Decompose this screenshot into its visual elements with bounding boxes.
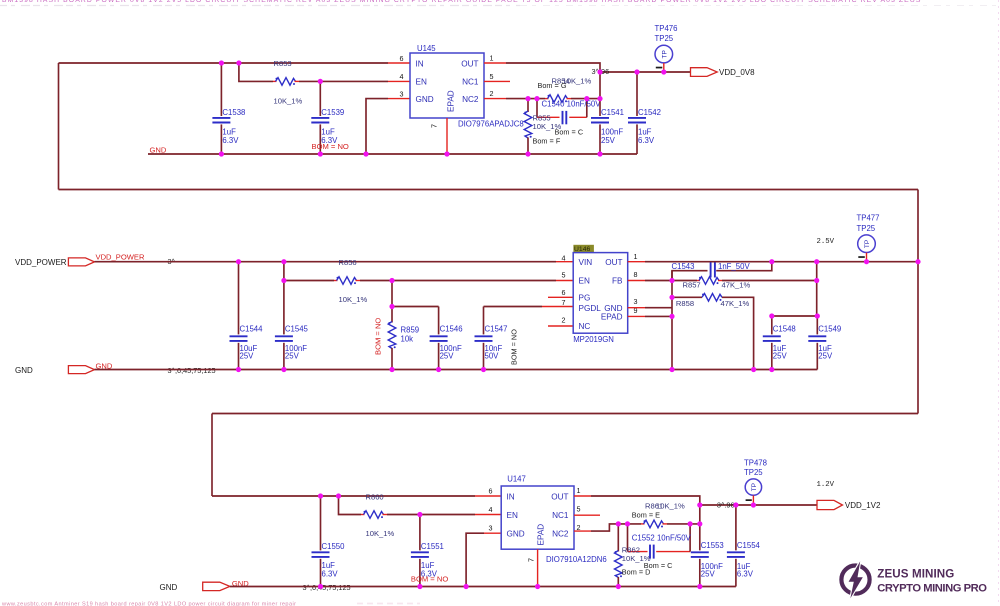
wire OUT pin1 <box>484 63 600 72</box>
svg-text:IN: IN <box>507 492 515 501</box>
svg-text:GND: GND <box>150 145 167 154</box>
svg-text:C1546: C1546 <box>440 325 463 334</box>
wire OUT pin1 row <box>574 496 700 505</box>
capacitor C1554 <box>727 505 761 587</box>
decorative bottom text row <box>1 601 420 606</box>
wire right loop vertical <box>917 190 919 414</box>
svg-text:5: 5 <box>577 505 581 514</box>
svg-text:3^,6,45,75,125: 3^,6,45,75,125 <box>168 366 216 375</box>
svg-text:6: 6 <box>400 54 404 63</box>
svg-text:25V: 25V <box>440 352 455 361</box>
resistor R858 <box>672 294 754 370</box>
svg-text:TP: TP <box>864 240 871 248</box>
svg-text:TP25: TP25 <box>744 468 763 477</box>
capacitor C1546 <box>430 307 463 370</box>
wire NC stub pin2 <box>548 325 573 327</box>
svg-text:5: 5 <box>562 271 566 280</box>
svg-text:3: 3 <box>489 524 493 533</box>
op-amp U147 regulator box <box>489 475 607 564</box>
svg-text:NC1: NC1 <box>462 78 479 87</box>
connector VDD_POWER <box>15 253 176 267</box>
svg-text:EPAD: EPAD <box>601 313 623 322</box>
svg-text:1.2V: 1.2V <box>817 481 835 489</box>
svg-text:BOM = NO: BOM = NO <box>510 329 519 365</box>
logo ZEUS MINING <box>841 561 987 598</box>
svg-text:OUT: OUT <box>461 59 478 68</box>
svg-text:3: 3 <box>400 89 404 98</box>
svg-text:VDD_POWER: VDD_POWER <box>15 258 67 267</box>
svg-text:GND: GND <box>416 95 434 104</box>
svg-text:TP478: TP478 <box>744 459 767 468</box>
svg-text:8: 8 <box>634 270 638 279</box>
svg-text:10k: 10k <box>401 334 414 343</box>
svg-text:TP476: TP476 <box>655 24 678 33</box>
test point TP477 <box>857 214 880 262</box>
svg-text:NC1: NC1 <box>552 511 569 520</box>
wire top feed y=63 <box>59 62 389 64</box>
connector VDD_0V8 <box>691 68 756 77</box>
node junctions bottom block <box>318 493 756 589</box>
wire EN drop <box>339 496 362 515</box>
wire GND pin3 <box>466 533 501 586</box>
svg-text:C1551: C1551 <box>421 542 444 551</box>
svg-text:Bom = F: Bom = F <box>533 137 561 146</box>
capacitor C1547 <box>475 307 574 370</box>
wire IN feed y=496 <box>212 495 475 497</box>
wire EPAD stub <box>446 118 448 154</box>
svg-text:7: 7 <box>562 298 566 307</box>
wire PG stub pin6 <box>548 296 573 298</box>
svg-text:C1547: C1547 <box>485 325 508 334</box>
svg-text:Bom = G: Bom = G <box>538 81 567 90</box>
ground rail bottom block <box>230 586 736 588</box>
svg-text:VDD_1V2: VDD_1V2 <box>845 501 881 510</box>
capacitor C1541 <box>591 72 624 154</box>
connector GND bottom <box>160 579 351 592</box>
capacitor C1551 <box>411 515 448 587</box>
svg-text:C1541: C1541 <box>601 108 624 117</box>
test point TP478 <box>744 459 767 506</box>
svg-text:10K_1%: 10K_1% <box>622 554 651 563</box>
svg-text:R860: R860 <box>366 493 384 502</box>
wire VIN stub <box>556 261 573 263</box>
svg-text:EPAD: EPAD <box>447 90 456 112</box>
capacitor C1544 <box>230 262 264 370</box>
svg-text:BOM = NO: BOM = NO <box>312 142 349 151</box>
svg-text:47K_1%: 47K_1% <box>722 280 751 289</box>
svg-text:1: 1 <box>577 486 581 495</box>
svg-text:6: 6 <box>562 288 566 297</box>
wire EN drop <box>239 63 273 81</box>
svg-text:R853: R853 <box>274 59 292 68</box>
svg-text:R857: R857 <box>683 280 701 289</box>
svg-text:2: 2 <box>562 316 566 325</box>
svg-text:50V: 50V <box>485 352 500 361</box>
svg-text:6.3V: 6.3V <box>737 569 754 578</box>
svg-text:1: 1 <box>634 252 638 261</box>
svg-text:ZEUS MINING: ZEUS MINING <box>877 568 954 581</box>
op-amp U145 regulator box <box>400 44 524 128</box>
wire EN to chip <box>387 514 475 516</box>
resistor R859 <box>374 307 420 370</box>
svg-text:EPAD: EPAD <box>537 524 546 546</box>
svg-text:1: 1 <box>490 53 494 62</box>
svg-text:10K_1%: 10K_1% <box>533 122 562 131</box>
svg-text:25V: 25V <box>601 136 616 145</box>
svg-text:VIN: VIN <box>579 258 593 267</box>
svg-text:C1539: C1539 <box>321 108 344 117</box>
svg-text:TP25: TP25 <box>857 224 876 233</box>
svg-text:OUT: OUT <box>605 258 622 267</box>
svg-text:R856: R856 <box>339 258 357 267</box>
svg-text:3^.96: 3^.96 <box>717 500 735 509</box>
svg-text:5: 5 <box>490 72 494 81</box>
wire IN pin stub <box>388 62 410 64</box>
svg-text:C1538: C1538 <box>222 108 245 117</box>
svg-text:4: 4 <box>400 72 404 81</box>
svg-text:C1543: C1543 <box>672 262 695 271</box>
svg-text:NC: NC <box>579 322 591 331</box>
svg-text:BM1398 HASH BOARD POWER 0V8 1V: BM1398 HASH BOARD POWER 0V8 1V2 2V5 LDO … <box>2 0 921 4</box>
svg-text:TP: TP <box>751 483 758 491</box>
node junctions top block <box>219 60 667 156</box>
svg-text:C1553: C1553 <box>701 541 724 550</box>
wire GND pin3 row <box>628 307 672 309</box>
wire bottom loop horizontal <box>59 189 919 191</box>
svg-text:U147: U147 <box>507 475 526 484</box>
svg-text:Bom = D: Bom = D <box>622 568 651 577</box>
wire NC1 stub pin5 <box>574 514 600 516</box>
capacitor C1542 <box>628 72 661 154</box>
svg-text:1nF_50V: 1nF_50V <box>718 262 750 271</box>
svg-text:10K_1%: 10K_1% <box>274 96 303 105</box>
svg-text:C1545: C1545 <box>285 325 309 334</box>
wire EN to C1539 and chip <box>299 80 388 82</box>
svg-text:C1549: C1549 <box>818 325 841 334</box>
svg-text:C1554: C1554 <box>737 541 761 550</box>
wire EN stub <box>556 280 573 282</box>
svg-text:2: 2 <box>490 89 494 98</box>
wire vertical x=672 <box>671 271 673 370</box>
svg-text:TP: TP <box>662 50 669 58</box>
resistor R862 <box>615 524 651 587</box>
resistor R860 <box>361 511 394 539</box>
svg-text:GND: GND <box>507 529 525 538</box>
svg-text:C1544: C1544 <box>240 325 264 334</box>
wire FB vertical x=816.7 <box>816 262 818 316</box>
svg-text:FB: FB <box>612 277 623 286</box>
node junctions middle block <box>236 259 921 372</box>
svg-text:10K_1%: 10K_1% <box>563 77 592 86</box>
svg-text:GND: GND <box>15 366 33 375</box>
resistor R857 <box>683 277 817 290</box>
ground rail middle block <box>95 369 818 371</box>
wire output 1V2 line <box>700 504 817 506</box>
svg-text:C1552 10nF/50V: C1552 10nF/50V <box>632 534 692 543</box>
wire output 0V8 line <box>600 71 691 73</box>
capacitor C1540 <box>537 99 601 137</box>
svg-text:47K_1%: 47K_1% <box>721 299 750 308</box>
svg-text:PGDL: PGDL <box>579 304 602 313</box>
svg-text:DIO7910A12DN6: DIO7910A12DN6 <box>546 555 607 564</box>
capacitor C1538 <box>212 63 245 154</box>
svg-text:EN: EN <box>507 511 518 520</box>
wire EPAD stub <box>537 549 539 586</box>
svg-text:6.3V: 6.3V <box>222 136 239 145</box>
wire EN to chip <box>360 280 556 282</box>
wire EN stub <box>475 514 501 516</box>
svg-text:MP2019GN: MP2019GN <box>573 335 614 344</box>
svg-text:DIO7976APADJC8: DIO7976APADJC8 <box>458 119 524 128</box>
svg-text:IN: IN <box>416 59 424 68</box>
resistor R854 <box>538 77 601 103</box>
resistor R853 <box>273 78 299 86</box>
svg-text:PG: PG <box>579 294 591 303</box>
ground rail top block <box>148 153 637 155</box>
svg-text:10K_1%: 10K_1% <box>656 501 685 510</box>
svg-text:7: 7 <box>527 558 536 562</box>
connector VDD_1V2 <box>817 500 881 510</box>
svg-text:R858: R858 <box>676 299 694 308</box>
test point TP476 <box>655 24 678 72</box>
wire NC1 stub pin5 <box>484 80 510 82</box>
svg-text:EN: EN <box>416 78 427 87</box>
svg-text:EN: EN <box>579 277 590 286</box>
capacitor C1539 <box>311 81 349 154</box>
svg-text:www.zeusbtc.com Antminer S19 h: www.zeusbtc.com Antminer S19 hash board … <box>1 601 296 606</box>
svg-text:C1548: C1548 <box>773 325 796 334</box>
capacitor C1549 <box>808 316 841 370</box>
resistor R856 <box>334 258 367 304</box>
wire VDD_POWER feed <box>95 261 557 263</box>
svg-text:25V: 25V <box>240 352 255 361</box>
wire NC2 pin2 row <box>574 524 641 531</box>
resistor R855 <box>524 99 561 154</box>
svg-text:4: 4 <box>489 505 493 514</box>
svg-text:C1550: C1550 <box>322 542 346 551</box>
wire left loop vertical <box>58 63 60 190</box>
svg-text:TP477: TP477 <box>857 214 880 223</box>
svg-text:4: 4 <box>562 254 566 263</box>
svg-text:7: 7 <box>430 124 439 128</box>
svg-text:GND: GND <box>160 583 178 592</box>
capacitor C1545 <box>275 281 309 370</box>
wire EN pin stub <box>388 80 410 82</box>
wire OUT pin1 row <box>628 261 918 263</box>
capacitor C1552 <box>628 524 692 570</box>
svg-text:25V: 25V <box>285 352 300 361</box>
svg-text:6.3V: 6.3V <box>322 569 339 578</box>
svg-text:U145: U145 <box>417 44 436 53</box>
wire 2.5V feed to bottom block <box>212 413 918 415</box>
svg-text:25V: 25V <box>773 352 788 361</box>
decorative top text row <box>0 0 1000 6</box>
svg-text:2.5V: 2.5V <box>817 238 835 246</box>
wire NC2 pin2 row <box>484 98 545 100</box>
svg-text:BOM = NO: BOM = NO <box>411 574 448 583</box>
decorative right border <box>998 0 1000 606</box>
svg-text:VDD_0V8: VDD_0V8 <box>719 68 755 77</box>
wire FB pin8 row <box>628 280 697 282</box>
svg-text:25V: 25V <box>818 352 833 361</box>
svg-text:10K_1%: 10K_1% <box>339 295 368 304</box>
wire EPAD pin9 row <box>628 315 672 317</box>
svg-text:3: 3 <box>634 297 638 306</box>
resistor R861 <box>632 501 700 527</box>
svg-text:10K_1%: 10K_1% <box>366 529 395 538</box>
svg-text:NC2: NC2 <box>552 529 569 538</box>
wire IN stub <box>475 495 501 497</box>
svg-text:TP25: TP25 <box>655 34 674 43</box>
wire EN drop <box>284 262 334 281</box>
op-amp U146 regulator box <box>562 245 638 344</box>
svg-text:NC2: NC2 <box>462 95 479 104</box>
svg-text:CRYPTO MINING PRO: CRYPTO MINING PRO <box>877 583 987 595</box>
capacitor C1553 <box>691 505 724 587</box>
svg-text:C1540 10nF/50V: C1540 10nF/50V <box>542 100 602 109</box>
wire junction drop x=392 <box>392 281 439 307</box>
svg-text:6: 6 <box>489 487 493 496</box>
svg-text:U146: U146 <box>574 246 590 253</box>
svg-text:C1542: C1542 <box>638 108 661 117</box>
svg-text:VDD_POWER: VDD_POWER <box>96 253 145 262</box>
capacitor C1543 <box>672 262 772 281</box>
wire left drop to bottom block <box>211 414 213 497</box>
svg-text:BOM = NO: BOM = NO <box>374 318 383 355</box>
capacitor C1550 <box>312 496 346 587</box>
connector GND middle <box>15 361 216 375</box>
svg-text:OUT: OUT <box>551 492 568 501</box>
svg-text:Bom = E: Bom = E <box>632 511 660 520</box>
svg-text:6.3V: 6.3V <box>638 136 655 145</box>
wire GND pin3 <box>366 99 410 154</box>
capacitor C1548 <box>763 316 818 370</box>
svg-text:R859: R859 <box>401 325 420 334</box>
svg-text:25V: 25V <box>701 569 716 578</box>
